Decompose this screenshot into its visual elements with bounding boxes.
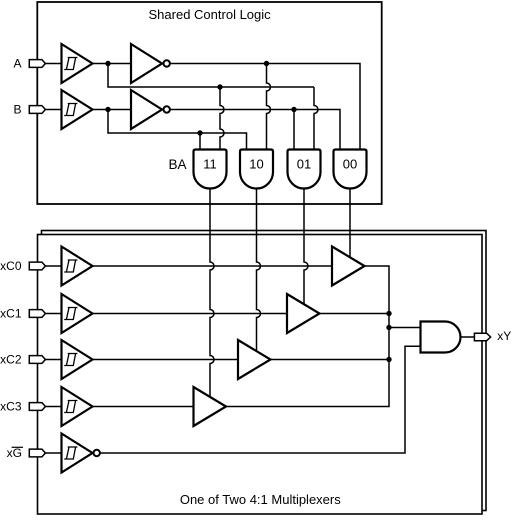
AND gate 00 (334, 150, 367, 189)
output pin xY (474, 333, 490, 341)
svg-text:11: 11 (203, 156, 217, 171)
wire: xC2 pin to Schmitt input (45, 359, 61, 361)
C2 pass switch (238, 340, 271, 379)
input pin xC2 (29, 356, 45, 364)
Schmitt buffer for xC2 (62, 340, 93, 379)
input pin xG (29, 449, 45, 457)
wire: common output node from C0 switch down to C3 switch (226, 266, 389, 407)
wire: common node to output AND gate top input (389, 327, 421, 329)
junction: A tap to gate 11 (217, 84, 222, 89)
junction: B-bar to gate 01 (291, 107, 296, 112)
junction: A Schmitt output (105, 61, 110, 66)
svg-text:00: 00 (343, 156, 357, 171)
top box: Shared Control Logic (37, 2, 381, 204)
junction: common node tap to AND gate (386, 325, 391, 330)
wire: select 11 from gate output down to C3 switch (hops over C0,C1,C2 lines) (210, 189, 214, 398)
svg-text:xY: xY (497, 329, 511, 343)
wire: A to gate 11 right input (hops over B-bar and B tap lines) (220, 87, 224, 150)
wire: A-bar drop to gate 10 right input (hops over A tap and B-bar lines) (267, 64, 271, 150)
wire: xG pin to Schmitt input (45, 452, 61, 454)
wire: select 10 down to C2 switch (hops over C0,C1 lines) (257, 189, 261, 352)
input pin xC1 (29, 310, 45, 318)
wire: select 00 down to C0 switch (349, 189, 351, 258)
input pin A (29, 60, 45, 68)
C1 pass switch (287, 294, 320, 333)
inverting Schmitt buffer for xG (62, 434, 93, 473)
svg-text:xC2: xC2 (0, 352, 22, 366)
junction: A-bar to gate 10 (264, 61, 269, 66)
wire: B tap line to gate 10 left input (108, 110, 247, 150)
input pin B (29, 106, 45, 114)
svg-text:10: 10 (249, 156, 263, 171)
svg-text:xG: xG (7, 446, 22, 460)
wire: A tap line down and right to gate 01 right input column (108, 64, 314, 88)
junction: C2 output on common node (386, 357, 391, 362)
wire: A drop to gate 01 right input (hops over B-bar line) (314, 87, 318, 150)
svg-text:xC0: xC0 (0, 259, 22, 273)
output AND gate (421, 322, 461, 353)
AND gate 10 (240, 150, 273, 189)
wire: A-bar line from inverter to gate 00 right input (170, 64, 360, 150)
wire: B-bar line from inverter to gate 00 left input (170, 110, 340, 150)
inverter for A (A-bar) (131, 44, 162, 83)
wire: B-bar drop to gate 01 left input (293, 110, 295, 150)
bottom box back sheet (second multiplexer) (42, 231, 487, 511)
wire: A Schmitt output to inverter input (93, 63, 132, 65)
svg-text:01: 01 (297, 156, 311, 171)
input pin xC3 (29, 403, 45, 411)
Schmitt buffer for A (62, 44, 93, 83)
svg-text:Shared Control Logic: Shared Control Logic (149, 7, 272, 22)
wire: AND gate output to xY pin (461, 336, 475, 338)
wire: xC0 pin to Schmitt input (45, 265, 61, 267)
wire: xC1 pin to Schmitt input (45, 313, 61, 315)
svg-text:One of Two 4:1 Multiplexers: One of Two 4:1 Multiplexers (180, 492, 341, 507)
Schmitt buffer for xC1 (62, 294, 93, 333)
wire: select 01 down to C1 switch (hops over C0 line) (304, 189, 308, 305)
svg-text:B: B (13, 102, 21, 116)
input pin xC0 (29, 262, 45, 270)
wire: B drop to gate 11 left input (199, 133, 201, 150)
inverter for B (B-bar) (131, 90, 162, 129)
C0 pass switch (332, 247, 365, 286)
wire: B Schmitt output to inverter input (93, 109, 132, 111)
Schmitt buffer for B (62, 90, 93, 129)
svg-text:A: A (13, 56, 21, 70)
wire: C3 data line to switch (93, 406, 194, 408)
wire: C1 switch output to common node (320, 313, 390, 315)
wire: B pin to Schmitt input (45, 109, 61, 111)
AND gate 11 (194, 150, 227, 189)
wire: G enable from inverting Schmitt to AND gate bottom input (100, 346, 421, 453)
svg-text:BA: BA (168, 157, 186, 172)
junction: C1 output on common node (386, 311, 391, 316)
wire: A pin to Schmitt input (45, 63, 61, 65)
wire: C1 data line to switch (93, 313, 288, 315)
AND gate 01 (288, 150, 321, 189)
wire: C2 switch output to common node (271, 359, 390, 361)
Schmitt buffer for xC0 (62, 247, 93, 286)
wire: C2 data line to switch (93, 359, 239, 361)
C3 pass switch (194, 387, 227, 426)
Schmitt buffer for xC3 (62, 387, 93, 426)
svg-text:xC3: xC3 (0, 399, 22, 413)
svg-text:xC1: xC1 (0, 306, 22, 320)
junction: B tap to gate 11 (197, 130, 202, 135)
bottom box front sheet: One of Two 4:1 Multiplexers (38, 235, 483, 515)
junction: B Schmitt output (105, 107, 110, 112)
wire: C0 data line to switch (93, 265, 333, 267)
wire: xC3 pin to Schmitt input (45, 406, 61, 408)
